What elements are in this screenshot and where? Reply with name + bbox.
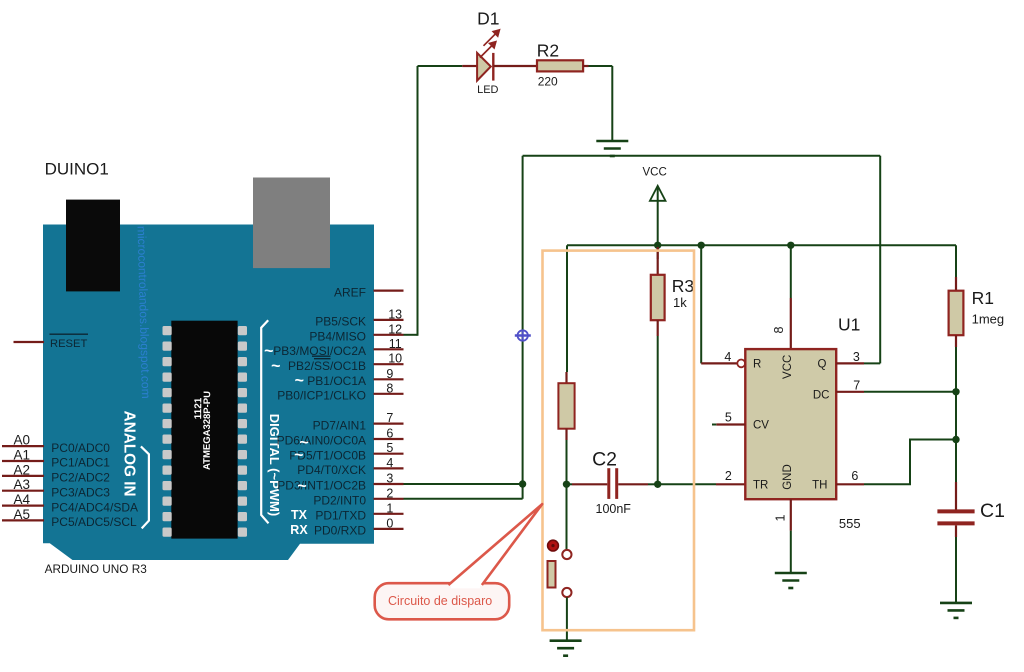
svg-text:A5: A5 — [14, 507, 31, 522]
wire RESET stub — [14, 341, 45, 343]
C2 left stub — [572, 483, 607, 485]
junction VCC/reset-pin — [698, 242, 705, 249]
wire down to button — [566, 484, 568, 550]
wire pin12 horizontal — [404, 334, 418, 336]
svg-text:A1: A1 — [14, 448, 31, 463]
svg-text:PB2/SS/OC1B: PB2/SS/OC1B — [288, 359, 366, 373]
pin PB2/SS/OC1B/10 — [374, 363, 404, 365]
CV stub tick — [712, 424, 716, 426]
pin PD0/RXD/0 — [374, 528, 404, 530]
svg-text:VCC: VCC — [643, 167, 667, 179]
svg-text:5: 5 — [725, 411, 732, 425]
ground G1 (LED circuit) — [596, 141, 628, 156]
svg-text:~: ~ — [297, 478, 306, 495]
wire junction to junction — [955, 392, 957, 482]
svg-text:PC4/ADC4/SDA: PC4/ADC4/SDA — [51, 500, 138, 514]
GND pin stub — [790, 499, 792, 530]
IC pins left column — [163, 326, 172, 537]
pin PD5/T1/OC0B/5 — [374, 453, 404, 455]
USB connector (gray) — [253, 178, 330, 269]
svg-text:PD3/INT1/OC2B: PD3/INT1/OC2B — [277, 479, 366, 493]
svg-text:PD1/TXD: PD1/TXD — [315, 509, 366, 523]
VCC arrow symbol — [650, 186, 666, 201]
svg-text:PC5/ADC5/SCL: PC5/ADC5/SCL — [51, 515, 137, 529]
svg-text:VCC: VCC — [782, 355, 794, 379]
resistor R4 body (trigger) — [558, 383, 574, 429]
resistor R2 body — [537, 60, 583, 71]
junction VCC/pin8 — [787, 242, 794, 249]
wire LED cathode to R2 — [493, 65, 537, 67]
svg-text:220: 220 — [538, 74, 558, 88]
button red indicator — [548, 540, 559, 551]
wire pin3 to junction — [404, 483, 523, 485]
wire pin2 riser — [522, 484, 524, 499]
svg-text:R2: R2 — [537, 41, 559, 61]
wire VCC rail — [567, 244, 956, 246]
pin PD6/AIN0/OC0A/6 — [374, 438, 404, 440]
C2 right stub — [618, 483, 648, 485]
svg-text:13: 13 — [388, 307, 402, 321]
svg-text:PD6/AIN0/OC0A: PD6/AIN0/OC0A — [277, 434, 366, 448]
svg-text:8: 8 — [772, 326, 786, 333]
svg-text:PD4/T0/XCK: PD4/T0/XCK — [297, 463, 366, 477]
pin PB4/MISO/12 — [374, 334, 404, 336]
MOSI underline — [312, 355, 331, 357]
svg-text:DIGITAL (~PWM): DIGITAL (~PWM) — [267, 414, 282, 516]
wire C1 to ground — [955, 537, 957, 603]
node A0 / pin PC0/ADC0 — [2, 445, 44, 447]
button bottom terminal — [562, 588, 571, 597]
svg-text:RESET: RESET — [50, 338, 87, 350]
svg-text:7: 7 — [386, 411, 393, 425]
junction R3/C2/TR — [654, 481, 661, 488]
junction R1/DC — [952, 388, 959, 395]
pin PB0/ICP1/CLKO/8 — [374, 393, 404, 395]
svg-text:11: 11 — [389, 337, 402, 351]
R3 bottom stub — [657, 320, 659, 336]
wire down to ground — [611, 66, 613, 141]
svg-text:A2: A2 — [14, 462, 31, 477]
svg-text:12: 12 — [388, 322, 402, 336]
svg-text:A3: A3 — [14, 477, 31, 492]
wire TH to C1 junction — [864, 440, 956, 485]
pin PD7/AIN1/7 — [374, 423, 404, 425]
wire R1 to DC junction — [955, 347, 957, 392]
LED D1 symbol — [477, 53, 491, 81]
svg-text:9: 9 — [386, 367, 393, 381]
svg-text:TH: TH — [812, 479, 827, 491]
pin8 stub — [790, 298, 792, 349]
pin PD4/T0/XCK/4 — [374, 467, 404, 469]
wire VCC down — [657, 187, 659, 246]
wire R2 to ground corner — [589, 65, 613, 67]
svg-text:A4: A4 — [14, 492, 31, 507]
svg-text:GND: GND — [782, 464, 794, 490]
LED anode stub — [462, 65, 477, 67]
svg-text:C2: C2 — [592, 448, 617, 470]
svg-text:R1: R1 — [972, 288, 994, 308]
svg-text:10: 10 — [388, 352, 402, 366]
svg-text:5: 5 — [386, 441, 393, 455]
svg-text:8: 8 — [386, 381, 393, 395]
svg-text:1: 1 — [386, 501, 393, 515]
R3 top stub — [657, 247, 659, 275]
svg-text:TX: TX — [291, 508, 308, 522]
R pin stub — [701, 362, 737, 364]
wire VCC to pin8 — [790, 245, 792, 298]
wire C2 to junction — [648, 483, 658, 485]
svg-text:1: 1 — [774, 514, 788, 521]
svg-text:U1: U1 — [838, 315, 860, 335]
svg-text:A0: A0 — [14, 433, 31, 448]
TR pin stub — [716, 483, 745, 485]
analog group bracket — [141, 446, 149, 528]
svg-text:4: 4 — [724, 350, 731, 364]
svg-text:PC1/ADC1: PC1/ADC1 — [51, 456, 110, 470]
wire VCC to R pin — [700, 245, 702, 363]
svg-text:R3: R3 — [672, 276, 694, 296]
svg-text:PB4/MISO: PB4/MISO — [309, 330, 366, 344]
svg-text:PB0/ICP1/CLKO: PB0/ICP1/CLKO — [277, 389, 366, 403]
wire Q to vertical — [864, 362, 880, 364]
svg-text:3: 3 — [386, 472, 393, 486]
junction TH/C1 — [952, 436, 959, 443]
wire R3 to TR net — [657, 336, 659, 484]
resistor R1 body — [949, 291, 964, 336]
junction VCC/R3 — [654, 242, 661, 249]
wire Q-net vertical — [522, 156, 524, 484]
svg-text:PC2/ADC2: PC2/ADC2 — [51, 471, 110, 485]
svg-text:ATMEGA328P-PU: ATMEGA328P-PU — [202, 391, 213, 470]
svg-text:LED: LED — [477, 84, 498, 96]
IC ATMEGA328P chip body — [171, 321, 237, 539]
TH pin stub — [836, 483, 864, 485]
svg-text:PD7/AIN1: PD7/AIN1 — [313, 418, 367, 432]
wire rail to R3 — [657, 245, 659, 259]
power connector (black) — [66, 200, 120, 292]
pin PB5/SCK/13 — [374, 319, 404, 321]
wire pin2 horizontal — [404, 498, 523, 500]
svg-text:PB1/OC1A: PB1/OC1A — [307, 374, 366, 388]
wire junction to TR — [658, 483, 716, 485]
R1 top stub — [955, 277, 957, 291]
wire Q-net top rail — [523, 155, 881, 157]
wire R4 to C2 — [566, 440, 568, 484]
pin PD3/INT1/OC2B/3 — [374, 483, 404, 485]
Q pin stub — [836, 362, 864, 364]
svg-text:DC: DC — [813, 389, 830, 401]
net marker (blue crosshair) — [515, 330, 531, 341]
svg-text:~: ~ — [271, 358, 280, 375]
R pin inversion bubble — [737, 360, 745, 368]
svg-text:CV: CV — [753, 420, 769, 432]
svg-text:6: 6 — [386, 427, 393, 441]
DC pin stub — [836, 391, 864, 393]
wire DC to R1 junction — [864, 391, 956, 393]
svg-text:2: 2 — [386, 486, 393, 500]
op-amp U1 555 timer body — [745, 349, 836, 499]
svg-text:6: 6 — [851, 469, 858, 483]
SS overline — [314, 358, 331, 360]
RESET overline — [50, 333, 89, 335]
svg-text:C1: C1 — [980, 500, 1005, 522]
node A4 / pin PC4/ADC4/SDA — [2, 505, 44, 507]
trigger circuit orange box — [543, 251, 695, 631]
button plunger — [548, 561, 556, 588]
wire to C2 left — [567, 483, 573, 485]
node A1 / pin PC1/ADC1 — [2, 460, 44, 462]
ground G3 (555) — [775, 573, 807, 588]
pin PD1/TXD/1 — [374, 513, 404, 515]
svg-text:PB5/SCK: PB5/SCK — [315, 315, 366, 329]
svg-text:D1: D1 — [477, 9, 499, 29]
node A5 / pin PC5/ADC5/SCL — [2, 519, 44, 521]
Arduino board DUINO1 body — [43, 225, 374, 561]
svg-text:2: 2 — [725, 469, 732, 483]
wire rail to R1 — [955, 245, 957, 277]
wire GND down — [790, 531, 792, 573]
callout bubble 'Circuito de disparo' — [375, 583, 510, 619]
R4 top stub — [565, 372, 567, 383]
pin PD2/INT0/2 — [374, 498, 404, 500]
ground G4 (C1) — [940, 603, 972, 618]
svg-text:ANALOG IN: ANALOG IN — [121, 411, 138, 497]
pin AREF — [374, 290, 404, 292]
R1 bottom stub — [955, 335, 957, 347]
svg-text:PC3/ADC3: PC3/ADC3 — [51, 485, 110, 499]
wire to LED anode — [418, 65, 463, 67]
wire rail down to R4 — [566, 245, 568, 372]
R2 right stub — [583, 65, 588, 67]
svg-text:~: ~ — [294, 447, 303, 464]
wire pin12 up to LED — [417, 66, 419, 336]
svg-text:DUINO1: DUINO1 — [45, 160, 109, 179]
svg-text:3: 3 — [853, 350, 860, 364]
R4 bottom stub — [565, 429, 567, 440]
svg-text:1k: 1k — [673, 295, 687, 310]
IC pins right column — [238, 326, 247, 537]
svg-text:RX: RX — [290, 523, 308, 537]
digital group bracket — [261, 320, 268, 523]
junction pin3/pin2/Q net — [519, 480, 526, 487]
capacitor C1 plates — [937, 509, 974, 513]
C1 bottom stub — [955, 525, 957, 537]
svg-text:PD2/INT0: PD2/INT0 — [313, 494, 366, 508]
CV pin stub — [716, 423, 745, 425]
junction C2/button — [563, 481, 570, 488]
svg-text:TR: TR — [753, 479, 768, 491]
svg-text:555: 555 — [839, 516, 861, 531]
svg-text:Q: Q — [818, 358, 827, 370]
svg-text:Circuito de disparo: Circuito de disparo — [388, 594, 492, 608]
svg-text:PD0/RXD: PD0/RXD — [314, 524, 366, 538]
capacitor C2 plates — [607, 468, 610, 499]
svg-text:1meg: 1meg — [972, 311, 1005, 326]
svg-text:ARDUINO UNO R3: ARDUINO UNO R3 — [45, 562, 148, 576]
svg-text:4: 4 — [386, 456, 393, 470]
svg-text:100nF: 100nF — [596, 502, 632, 516]
svg-text:7: 7 — [853, 378, 860, 392]
svg-text:~: ~ — [295, 373, 304, 390]
ground G2 (button) — [550, 641, 582, 656]
button top terminal — [562, 550, 571, 559]
wire button to ground — [566, 597, 568, 640]
LED arrows — [480, 30, 500, 58]
svg-text:R: R — [753, 358, 761, 370]
resistor R3 body — [651, 275, 665, 320]
node A3 / pin PC3/ADC3 — [2, 490, 44, 492]
wire to C1 top plate — [955, 482, 957, 510]
pin PB3/MOSI/OC2A/11 — [374, 348, 404, 350]
pin PB1/OC1A/9 — [374, 378, 404, 380]
svg-text:AREF: AREF — [334, 285, 366, 299]
svg-text:0: 0 — [386, 516, 393, 530]
wire Q-net right vertical — [879, 156, 881, 364]
node A2 / pin PC2/ADC2 — [2, 475, 44, 477]
svg-text:PC0/ADC0: PC0/ADC0 — [51, 441, 110, 455]
